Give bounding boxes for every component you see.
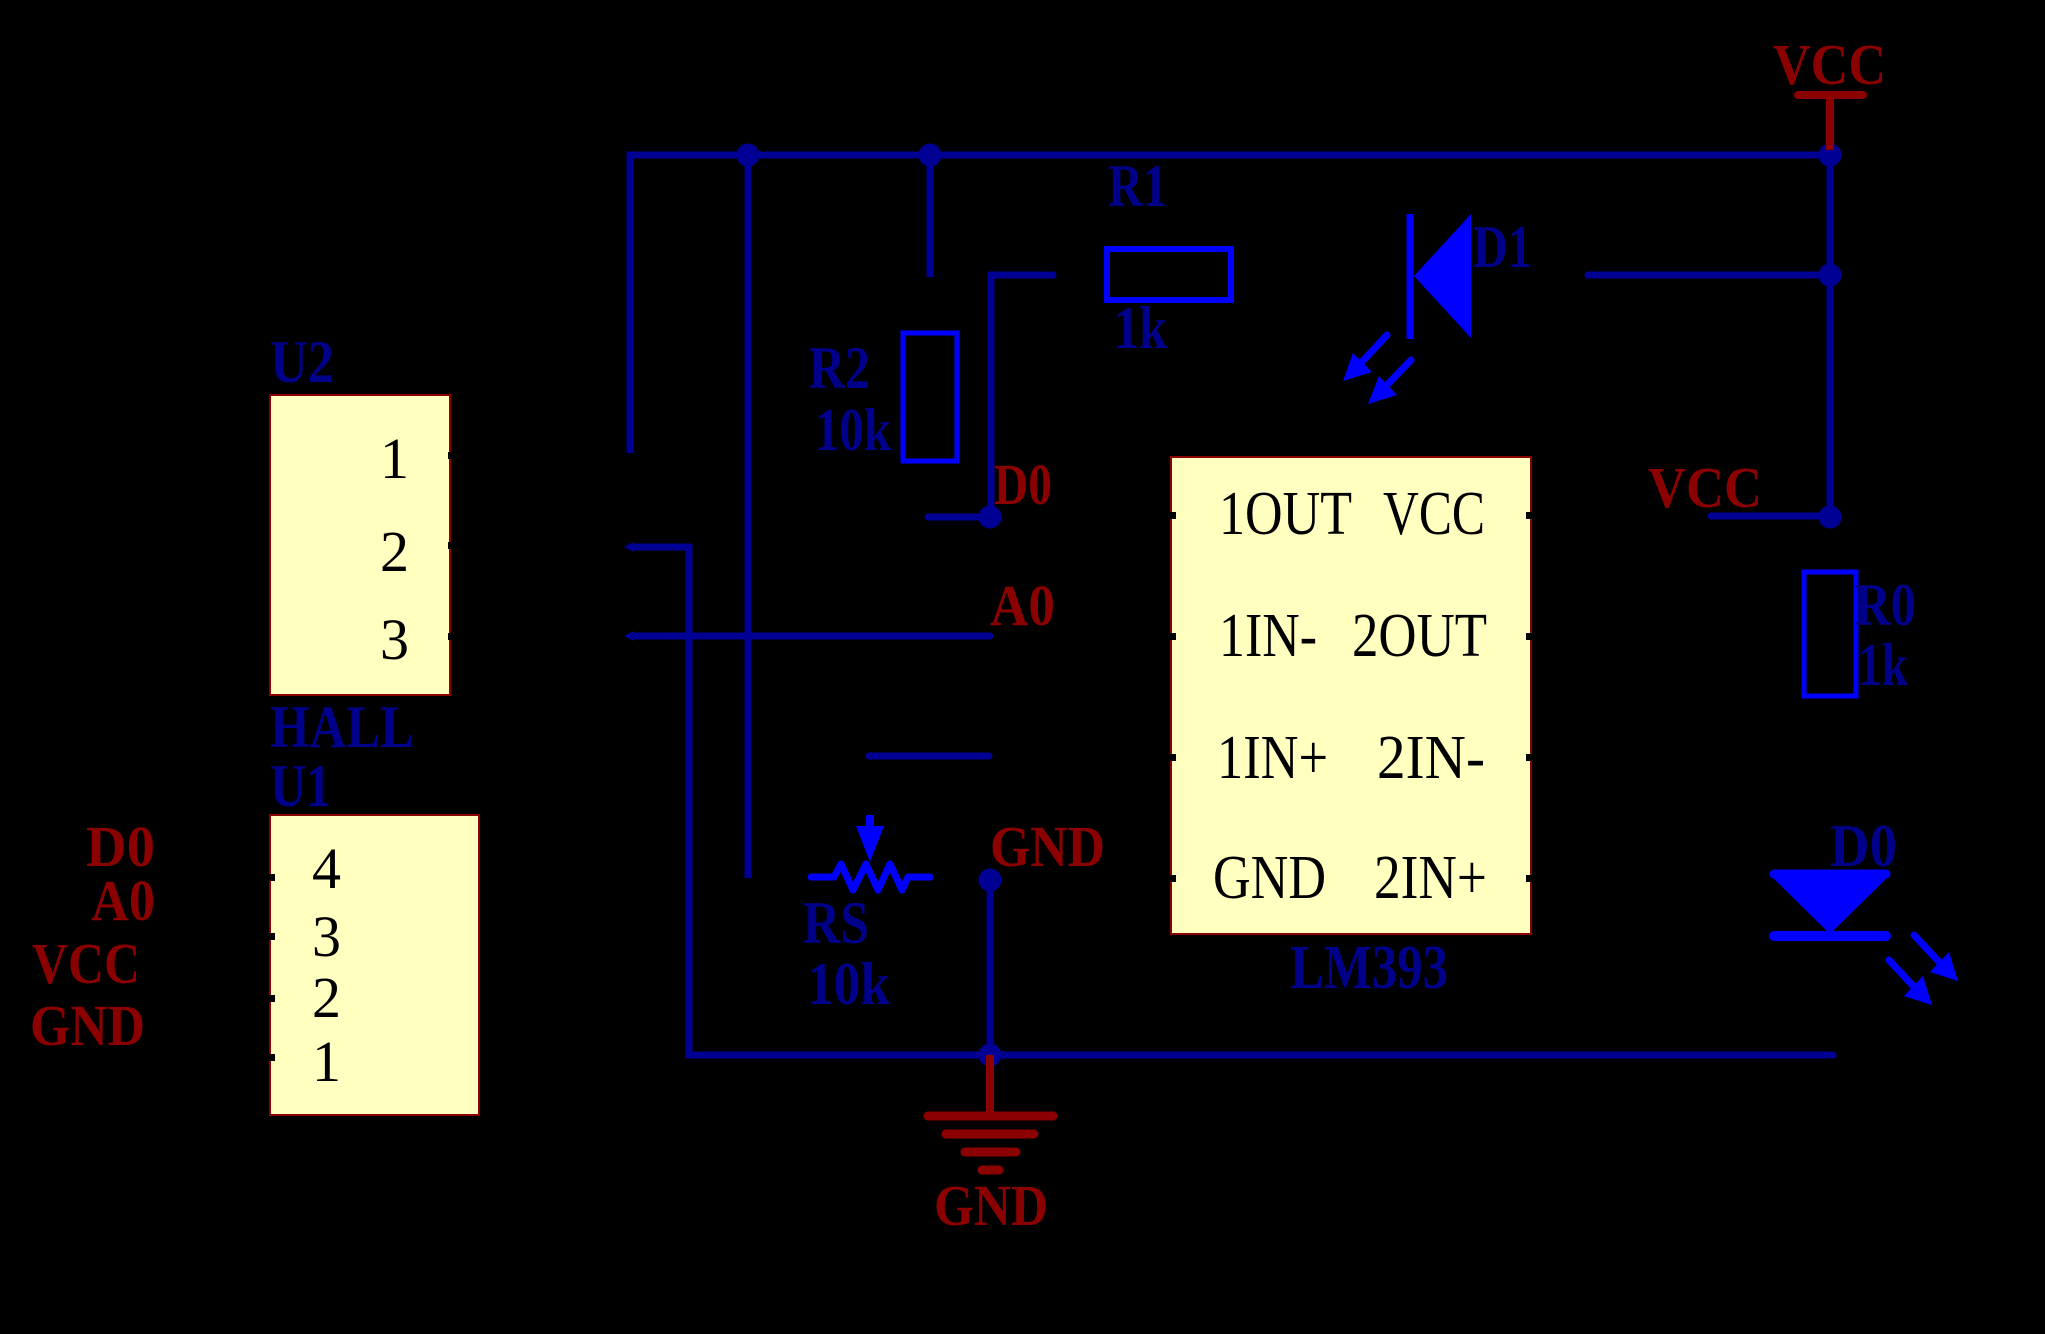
svg-text:10k: 10k <box>807 951 891 1017</box>
wire VCC top rail <box>630 155 1830 453</box>
resistor R1 <box>1107 249 1231 300</box>
wire GND node vertical <box>987 880 994 1055</box>
svg-text:A0: A0 <box>990 573 1055 638</box>
wire right rail vertical <box>1827 155 1834 528</box>
svg-text:2IN-: 2IN- <box>1377 724 1485 792</box>
svg-text:R2: R2 <box>809 335 870 401</box>
svg-text:RS: RS <box>803 890 869 956</box>
resistor R2 <box>903 333 957 461</box>
svg-text:3: 3 <box>380 607 409 672</box>
svg-text:3: 3 <box>312 904 341 969</box>
svg-text:VCC: VCC <box>1383 480 1485 548</box>
svg-text:2: 2 <box>380 519 409 584</box>
wire tip (pin2 wire) <box>624 542 634 552</box>
svg-text:LM393: LM393 <box>1290 934 1448 1002</box>
svg-text:R0: R0 <box>1854 572 1916 638</box>
wire R2 bottom to node D0 <box>928 514 990 521</box>
svg-text:U2: U2 <box>270 329 334 395</box>
svg-text:A0: A0 <box>91 868 155 933</box>
svg-text:10k: 10k <box>815 397 892 463</box>
ground symbol <box>928 1055 1053 1238</box>
svg-text:VCC: VCC <box>1648 455 1762 520</box>
svg-text:1: 1 <box>312 1029 341 1094</box>
power VCC symbol top <box>1773 32 1886 150</box>
wire A0 <box>631 633 990 640</box>
wire stub above R2 <box>927 155 934 277</box>
junction D1 right rail <box>1819 264 1842 287</box>
svg-text:1IN-: 1IN- <box>1219 602 1317 670</box>
svg-text:1OUT: 1OUT <box>1219 480 1352 548</box>
svg-text:GND: GND <box>934 1173 1048 1238</box>
junction VCC mid rail <box>1819 506 1842 529</box>
svg-text:2IN+: 2IN+ <box>1374 844 1487 912</box>
svg-text:R1: R1 <box>1108 153 1167 219</box>
wire VCC mid label <box>1711 513 1830 520</box>
svg-text:VCC: VCC <box>1773 32 1886 97</box>
svg-text:1k: 1k <box>1858 632 1908 698</box>
svg-text:1: 1 <box>380 426 409 491</box>
wire D1 right <box>1588 272 1830 279</box>
wire R1 left to node D0 <box>991 275 1053 517</box>
svg-text:1IN+: 1IN+ <box>1217 724 1328 792</box>
svg-text:D0: D0 <box>1830 813 1897 879</box>
connector U1 <box>270 815 479 1115</box>
LED D1 <box>1343 214 1471 404</box>
op-amp U3 LM393 body <box>1171 457 1531 934</box>
svg-text:1k: 1k <box>1114 295 1168 361</box>
junction node GND upper <box>979 869 1002 892</box>
svg-text:D1: D1 <box>1473 214 1532 280</box>
wire 1IN+ segment <box>869 753 989 760</box>
svg-text:GND: GND <box>30 993 145 1058</box>
potentiometer RS <box>811 815 930 890</box>
LED D0 <box>1769 874 1958 1005</box>
junction GND rail <box>979 1044 1002 1067</box>
svg-text:VCC: VCC <box>32 931 140 996</box>
connector U2 (HALL) <box>270 395 450 695</box>
svg-text:U1: U1 <box>270 753 331 819</box>
svg-text:4: 4 <box>312 836 341 901</box>
svg-text:D0: D0 <box>994 452 1052 517</box>
junction top rail x=748 <box>737 144 760 167</box>
svg-text:HALL: HALL <box>270 694 414 760</box>
svg-text:2OUT: 2OUT <box>1352 602 1487 670</box>
svg-text:GND: GND <box>1213 844 1326 912</box>
svg-text:GND: GND <box>990 814 1105 879</box>
wire U2 pin2 to GND rail <box>631 547 1833 1055</box>
wire tip (A0 wire) <box>624 631 634 641</box>
junction top rail x=930 <box>919 144 942 167</box>
junction VCC top right <box>1819 144 1842 167</box>
svg-text:2: 2 <box>312 965 341 1030</box>
wire vertical from top rail x=748 <box>745 155 752 878</box>
junction node D0 <box>979 506 1002 529</box>
resistor R0 <box>1804 572 1856 696</box>
